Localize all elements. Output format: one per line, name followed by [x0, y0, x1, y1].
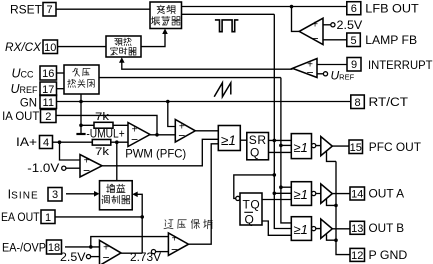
- interrupt comparator: [293, 59, 318, 78]
- svg-text:≥1: ≥1: [294, 187, 308, 202]
- svg-text:−: −: [311, 32, 318, 46]
- wire UCC to UVLO: [57, 72, 65, 74]
- wire clock to T flip-flop: [234, 175, 274, 199]
- PWM comparator PWM (PFC): [175, 120, 195, 143]
- wire OVP output to PWM OR gate: [189, 144, 219, 244]
- wire SR top row to PFC gate: [269, 139, 292, 141]
- pin box 14 OUT A: [350, 187, 365, 201]
- svg-text:-1.0V: -1.0V: [27, 163, 59, 175]
- pin box 6 LFB OUT: [347, 2, 361, 16]
- wire oscillator out to LFB OUT pin 6: [182, 6, 347, 8]
- svg-text:Q: Q: [245, 212, 254, 226]
- svg-text:5: 5: [350, 35, 356, 47]
- driver buffer OUT A: [321, 184, 333, 203]
- wire error amp output: [121, 252, 142, 254]
- svg-text:IA+: IA+: [16, 137, 37, 149]
- svg-text:18: 18: [48, 242, 60, 254]
- wire SR Q to PFC gate: [269, 151, 292, 153]
- pin box 4 IA+: [40, 136, 53, 150]
- pin box 13 OUT B: [350, 221, 365, 235]
- svg-text:RT/CT: RT/CT: [369, 97, 409, 109]
- svg-text:2.5V: 2.5V: [60, 252, 86, 264]
- wire P GND bus with driver ground stubs: [327, 151, 337, 240]
- wire EA OUT pin to error amp bus: [55, 216, 142, 218]
- OR gate >=1 OUT A: [291, 182, 311, 206]
- square wave symbol: [215, 20, 239, 32]
- driver buffer OUT B: [321, 219, 333, 238]
- svg-text:7: 7: [46, 4, 52, 16]
- svg-text:6: 6: [351, 3, 357, 15]
- svg-text:ISINE: ISINE: [8, 188, 39, 202]
- wire oscillator clock out: [182, 13, 275, 15]
- wire ISINE to gain modulator with arrow: [66, 193, 95, 195]
- svg-text:LAMP FB: LAMP FB: [365, 35, 417, 47]
- svg-text:IA OUT: IA OUT: [2, 111, 39, 123]
- T flip-flop clock bubble: [236, 196, 240, 200]
- wire UREF terminal to comparator: [317, 73, 323, 75]
- svg-text:PWM (PFC): PWM (PFC): [125, 147, 186, 161]
- current comparator -1.0V: [80, 155, 102, 178]
- svg-text:17: 17: [42, 84, 54, 96]
- pin box 12 P GND: [350, 248, 365, 262]
- lamp feedback comparator 2.5V: [299, 18, 323, 44]
- pin box 15 PFC OUT: [349, 140, 363, 154]
- svg-text:−: −: [306, 66, 313, 80]
- wire RT/CT ramp down to PWM + input: [168, 102, 176, 127]
- svg-text:−: −: [83, 163, 90, 177]
- svg-text:8: 8: [354, 97, 360, 109]
- svg-text:Q: Q: [250, 146, 259, 160]
- svg-text:2.5V: 2.5V: [337, 20, 363, 32]
- svg-text:RSET: RSET: [10, 5, 42, 17]
- resistor 7k upper: [79, 111, 128, 128]
- svg-text:OUT B: OUT B: [369, 223, 405, 235]
- pin box 2 IA OUT: [41, 110, 57, 124]
- wire TQ Q to OUT A gate: [262, 199, 291, 201]
- svg-text:10: 10: [44, 42, 56, 54]
- pin box 1 EA OUT: [41, 210, 55, 224]
- svg-text:≥1: ≥1: [294, 140, 308, 155]
- pin box 10 RX/CX: [43, 40, 58, 54]
- svg-text:2: 2: [45, 111, 51, 123]
- wire INTERRUPT pin to comparator: [317, 64, 347, 66]
- wire 2.5V terminal: [323, 24, 331, 26]
- wire PWM comparator to OR gate: [195, 130, 218, 132]
- svg-text:≥1: ≥1: [221, 133, 236, 148]
- error amplifier EA: [100, 240, 122, 264]
- wire GN to RT/CT rail: [57, 101, 351, 103]
- wire RX/CX to preheat timer: [58, 46, 107, 48]
- wire IA OUT pin to amplifier output: [56, 115, 157, 135]
- pin box 7 RSET: [43, 3, 56, 17]
- pin box 17 UREF: [40, 82, 57, 96]
- OVP comparator: [168, 233, 188, 255]
- svg-text:−: −: [131, 133, 138, 147]
- wire clock bus to OUT A gate: [274, 192, 291, 194]
- svg-text:11: 11: [43, 97, 54, 109]
- svg-text:PFC OUT: PFC OUT: [369, 142, 421, 154]
- svg-text:+: +: [312, 20, 318, 31]
- wire TQ Qbar to OUT B gate: [262, 221, 291, 235]
- wire interrupt comparator out to preheat timer with arrow: [122, 62, 293, 70]
- pin box 5 LAMP FB: [347, 33, 361, 47]
- gain modulator block 增益调制器: [100, 181, 133, 210]
- OR gate >=1 OUT B: [291, 217, 311, 241]
- svg-text:RX/CX: RX/CX: [5, 42, 42, 54]
- wire UREF to UVLO: [57, 88, 65, 90]
- pin box 9 INTERRUPT: [347, 58, 361, 72]
- svg-text:INTERRUPT: INTERRUPT: [368, 60, 433, 72]
- wire UVLO bus to PFC gate: [281, 144, 291, 146]
- svg-text:−: −: [178, 129, 185, 143]
- wire UVLO bus to OUT A gate: [281, 186, 291, 188]
- oscillator block 变频振荡器 U-OSC: [150, 2, 182, 29]
- wire EA-/OVP feedback to OVP comparator: [91, 237, 169, 247]
- svg-text:OUT A: OUT A: [369, 189, 405, 201]
- svg-text:9: 9: [351, 59, 357, 71]
- wire IA output to PWM comparator: [150, 134, 175, 136]
- svg-text:3: 3: [52, 189, 58, 201]
- wire UVLO shutdown bus vertical: [281, 78, 291, 223]
- current amplifier IA: [128, 123, 150, 147]
- driver buffer PFC: [321, 137, 333, 156]
- svg-text:−: −: [171, 242, 178, 256]
- sawtooth ramp symbol: [214, 83, 231, 97]
- wire IA+ down to current comparator: [60, 142, 81, 160]
- wire node to gain modulator top: [116, 142, 118, 181]
- wire preheat timer to oscillator with arrow: [141, 34, 165, 47]
- svg-text:TQ: TQ: [243, 197, 261, 211]
- OR gate >=1 PWM: [218, 126, 240, 151]
- pin box 11 GN: [40, 95, 57, 109]
- pin box 18 EA-/OVP: [47, 240, 62, 254]
- svg-text:13: 13: [351, 223, 363, 235]
- wire OR gate to SR latch: [240, 139, 247, 141]
- svg-text:GN: GN: [20, 97, 37, 109]
- svg-text:UREF: UREF: [10, 82, 38, 96]
- svg-text:1: 1: [45, 212, 51, 224]
- svg-text:2.73V: 2.73V: [130, 252, 161, 264]
- wire branch down to lamp comparator output: [292, 7, 300, 32]
- wire UVLO bottom to resistor node with end bar: [80, 94, 82, 134]
- wire oscillator clock bus vertical: [274, 14, 291, 228]
- preheat timer block 预热定时器: [106, 36, 141, 57]
- pin box 8 RT/CT: [351, 95, 365, 109]
- svg-text:15: 15: [350, 142, 362, 154]
- resistor 7k lower: [53, 140, 129, 159]
- SR latch: [247, 133, 269, 160]
- T flip-flop TQ: [240, 193, 262, 226]
- wire EA-/OVP pin to error amp: [65, 246, 100, 248]
- UVLO/thermal shutdown block 欠压热关闭: [64, 65, 99, 94]
- svg-text:UCC: UCC: [11, 67, 34, 81]
- wire RSET to oscillator: [56, 8, 150, 10]
- wire UVLO out long line: [99, 77, 281, 79]
- svg-text:LFB OUT: LFB OUT: [365, 4, 419, 16]
- svg-text:7k: 7k: [95, 146, 110, 158]
- svg-text:≥1: ≥1: [294, 222, 308, 237]
- wire error amp output bus to gain modulator with arrow: [137, 194, 142, 253]
- svg-text:14: 14: [351, 189, 363, 201]
- OVP label 过压保护: [164, 220, 212, 229]
- svg-text:16: 16: [42, 68, 54, 80]
- pin box 16 UCC: [40, 66, 57, 80]
- svg-text:12: 12: [351, 250, 363, 262]
- svg-text:EA OUT: EA OUT: [1, 212, 40, 224]
- svg-text:7k: 7k: [95, 111, 110, 123]
- svg-text:−: −: [102, 251, 109, 264]
- pin box 3 ISINE: [48, 188, 62, 202]
- svg-text:P GND: P GND: [369, 250, 408, 262]
- svg-text:4: 4: [43, 137, 49, 149]
- OR gate >=1 PFC OUT: [291, 134, 311, 159]
- svg-text:EA-/OVP: EA-/OVP: [2, 243, 46, 255]
- wire LAMP FB to comparator: [323, 39, 347, 41]
- wire current comparator out to PWM OR gate: [102, 139, 218, 166]
